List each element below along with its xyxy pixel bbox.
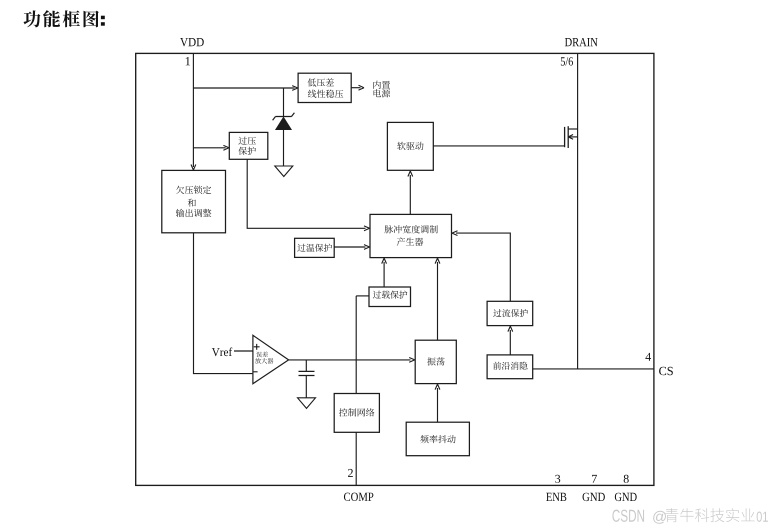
- wire LDO output: [351, 87, 360, 89]
- wire Vref to plus input: [234, 350, 253, 352]
- arrow LEB into OCP: [508, 326, 513, 332]
- wire jitter to oscillator: [437, 388, 439, 422]
- wire VDD pin down: [192, 53, 194, 167]
- block OSC 振荡: [415, 340, 456, 383]
- net label DRAIN: [565, 38, 598, 46]
- arrow into oscillator: [409, 358, 415, 363]
- label 欠压锁定: [176, 186, 211, 194]
- arrow into soft drive: [408, 171, 413, 177]
- arrow into OVP: [223, 145, 229, 150]
- wire OTP to PWM: [334, 246, 365, 248]
- wire VDD to LDO: [193, 87, 294, 89]
- pin 2 label: [348, 469, 353, 477]
- zener diode D1 cathode bar: [273, 113, 295, 120]
- block OCP 过流保护: [487, 301, 533, 325]
- arrow OSC into PWM: [435, 258, 440, 264]
- block 软驱动: [387, 122, 433, 170]
- arrow OVP into PWM: [364, 226, 370, 231]
- wire PWM to soft drive: [409, 175, 411, 214]
- IC outline border: [136, 53, 654, 485]
- arrow OTP into PWM: [364, 245, 370, 250]
- wire cap to ground: [305, 376, 307, 398]
- arrow into oscillator bottom: [435, 384, 440, 390]
- pin 1 label: [186, 57, 190, 65]
- watermark @: [653, 511, 666, 524]
- arrow OLP into PWM: [382, 258, 387, 264]
- label 和: [188, 199, 196, 207]
- label 内置: [373, 81, 390, 89]
- wire soft drive to gate: [433, 145, 564, 147]
- op-amp minus sign: [253, 371, 257, 373]
- label 低压差: [308, 78, 334, 86]
- wire LEB to CS pin: [533, 368, 654, 370]
- arrow OCP into PWM: [452, 231, 458, 236]
- label 频率抖动: [420, 435, 455, 443]
- label 误差: [256, 352, 268, 358]
- arrow LDO output: [359, 85, 365, 90]
- block U1 LDO 低压差线性稳压: [298, 73, 351, 102]
- net label VDD: [180, 38, 204, 46]
- pin 7 label: [592, 475, 597, 483]
- label 电源: [374, 89, 391, 97]
- label 前沿消隐: [493, 362, 527, 370]
- pin 5/6 label: [561, 57, 573, 65]
- ground symbol under cap: [298, 398, 316, 409]
- block 频率抖动: [406, 422, 469, 456]
- watermark 01: [757, 512, 768, 522]
- net label COMP: [344, 493, 373, 501]
- block 控制网络: [334, 394, 379, 433]
- block OTP 过温保护: [295, 238, 335, 257]
- title text 功能框图：: [24, 10, 105, 27]
- ground symbol under zener: [275, 166, 293, 177]
- wire LEB to OCP: [509, 330, 511, 355]
- pin 3 label: [555, 475, 560, 483]
- label 振荡: [427, 357, 444, 365]
- block UVLO 欠压锁定和输出调整: [162, 170, 226, 232]
- block LEB 前沿消隐: [487, 355, 533, 379]
- block PWM 脉冲宽度调制产生器: [370, 214, 452, 257]
- capacitor C1 tap wire: [305, 360, 307, 371]
- label 过温保护: [297, 244, 332, 252]
- net label ENB: [546, 493, 566, 501]
- wire comp net vertical: [355, 296, 357, 394]
- wire OLP to PWM: [383, 262, 385, 287]
- label 输出调整: [176, 209, 212, 217]
- label 放大器: [255, 358, 273, 364]
- pin 4 label: [645, 353, 651, 361]
- wire source down to CS: [577, 129, 579, 369]
- label 过压: [238, 137, 255, 145]
- label 线性稳压: [308, 90, 343, 98]
- wire VDD to OVP: [193, 147, 225, 149]
- net label Vref: [212, 348, 232, 357]
- pin 8 label: [624, 475, 629, 483]
- wire error amp output: [289, 359, 411, 361]
- transistor Q1 channel bar: [567, 126, 569, 148]
- net label GND pin8: [615, 493, 637, 501]
- label 过流保护: [493, 309, 528, 317]
- wire UVLO to error amp: [194, 233, 253, 374]
- net label CS: [659, 367, 673, 375]
- arrow into LDO: [292, 86, 298, 91]
- wire drain to pin 5/6: [577, 53, 579, 129]
- arrow into UVLO box: [191, 165, 196, 171]
- net label GND pin7: [583, 493, 605, 501]
- block OVP 过压保护: [229, 132, 267, 159]
- wire OLP to comp net: [356, 295, 369, 297]
- label 控制网络: [339, 408, 374, 416]
- transistor Q1 gate bar: [564, 127, 566, 147]
- label 脉冲宽度调制: [385, 225, 438, 233]
- label 保护: [238, 147, 255, 155]
- wire zener tap: [283, 88, 285, 116]
- wire OCP to PWM: [456, 233, 510, 301]
- label 软驱动: [397, 142, 423, 150]
- op-amp plus sign: [254, 344, 260, 350]
- label 产生器: [397, 237, 423, 245]
- transistor Q1 body arrow: [568, 135, 573, 140]
- capacitor C1 plates: [299, 371, 315, 375]
- wire zener to ground: [283, 130, 285, 166]
- wire control net to pin 2: [355, 432, 357, 485]
- op-amp U2 error amplifier: [253, 335, 289, 383]
- watermark 青牛科技实业: [665, 508, 755, 522]
- watermark CSDN: [612, 510, 644, 522]
- transistor Q1 source tap: [568, 136, 577, 138]
- label 过载保护: [373, 291, 408, 299]
- zener diode D1 anode triangle: [276, 117, 292, 129]
- block OLP 过载保护: [369, 287, 411, 307]
- transistor Q1 drain tap: [568, 128, 577, 130]
- wire oscillator to PWM: [437, 262, 439, 340]
- wire OVP to PWM: [247, 159, 365, 228]
